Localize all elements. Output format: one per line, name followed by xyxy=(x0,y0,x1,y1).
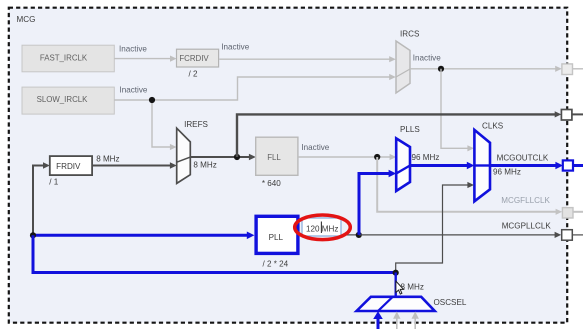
wire source to PLL (blue) xyxy=(33,232,254,240)
annotation red ellipse xyxy=(295,215,351,240)
port square MCGPLLCLK (white/dark) xyxy=(562,230,573,241)
svg-text:MCGFLLCLK: MCGFLLCLK xyxy=(501,196,550,205)
mux CLKS xyxy=(474,122,503,202)
block FRDIV xyxy=(49,156,92,187)
svg-text:MCGPLLCLK: MCGPLLCLK xyxy=(502,222,552,231)
svg-text:8 MHz: 8 MHz xyxy=(96,154,119,163)
svg-text:8 MHz: 8 MHz xyxy=(193,161,216,170)
svg-text:FAST_IRCLK: FAST_IRCLK xyxy=(40,53,88,62)
svg-text:CLKS: CLKS xyxy=(482,122,504,131)
svg-text:FLL: FLL xyxy=(267,153,281,162)
port square MCGFLLCLK (gray) xyxy=(562,208,573,218)
mouse cursor xyxy=(396,281,404,294)
wire MCGFLLCLK (gray to right port) xyxy=(377,157,583,215)
port square MCGIRCLK (gray) xyxy=(562,64,573,75)
port square internal ref (white/dark) xyxy=(561,110,572,121)
wire SLOW_IRCLK branch to IREFS xyxy=(152,100,177,150)
wire IRCS junction down to CLKS top input xyxy=(441,69,474,152)
wire internal reference out (thick dark to right port) xyxy=(237,111,583,157)
svg-text:Inactive: Inactive xyxy=(221,42,249,51)
node junction FLL out xyxy=(374,154,380,160)
wire PLL output xyxy=(300,234,359,236)
wire OSCSEL input 2 (gray from below) xyxy=(393,312,400,329)
svg-text:* 640: * 640 xyxy=(262,179,281,188)
node junction PLL out xyxy=(356,232,362,238)
wire PLL out up to PLLS (blue) xyxy=(359,170,396,235)
edit box 120 MHz xyxy=(302,218,341,236)
wire OSCSEL input selected (blue from below) xyxy=(373,311,383,329)
svg-text:96 MHz: 96 MHz xyxy=(493,167,521,176)
svg-text:8 MHz: 8 MHz xyxy=(401,283,424,292)
wire OSCSEL output up (blue) xyxy=(396,273,424,297)
block FCRDIV xyxy=(177,49,219,78)
svg-text:FRDIV: FRDIV xyxy=(56,162,81,171)
wire input to FRDIV (left vertical) xyxy=(33,162,50,235)
wire MCGPLLCLK (dark thin to right port) xyxy=(359,222,583,239)
svg-text:MCGOUTCLK: MCGOUTCLK xyxy=(497,154,549,163)
svg-text:IREFS: IREFS xyxy=(184,120,208,129)
mux OSCSEL xyxy=(357,297,467,311)
svg-text:MCG: MCG xyxy=(17,15,36,24)
svg-text:PLL: PLL xyxy=(269,233,284,242)
wire OSCSEL input 3 (gray from below) xyxy=(412,312,419,329)
node junction IREFS out xyxy=(234,154,240,160)
svg-text:/ 1: / 1 xyxy=(49,178,58,187)
mux IRCS xyxy=(396,30,420,93)
wire IRCS output to port xyxy=(410,54,583,72)
svg-text:PLLS: PLLS xyxy=(400,125,420,134)
wire FCRDIV to IRCS xyxy=(219,42,396,62)
wire source bottom run (blue) xyxy=(33,235,396,272)
node junction left source xyxy=(30,232,36,238)
wire PLLS output to CLKS (blue) xyxy=(410,153,474,170)
svg-text:FCRDIV: FCRDIV xyxy=(179,54,209,63)
svg-text:96 MHz: 96 MHz xyxy=(412,153,440,162)
mux PLLS xyxy=(396,125,420,191)
node junction SLOW_IRCLK xyxy=(149,97,155,103)
wire source to CLKS bottom input (thin dark) xyxy=(396,182,474,273)
mux IREFS xyxy=(177,120,209,183)
block PLL xyxy=(256,216,298,268)
node junction OSCSEL out xyxy=(393,270,399,276)
svg-text:Inactive: Inactive xyxy=(413,54,441,63)
svg-text:Inactive: Inactive xyxy=(119,45,147,54)
wire IREFS output to FLL xyxy=(190,154,255,170)
svg-text:120 MHz: 120 MHz xyxy=(306,225,338,234)
node junction IRCS out xyxy=(438,66,444,72)
svg-text:Inactive: Inactive xyxy=(301,143,329,152)
svg-text:IRCS: IRCS xyxy=(400,30,420,39)
wire FLL output to PLLS xyxy=(298,143,396,160)
port square MCGOUTCLK (blue) xyxy=(563,160,573,170)
block FAST_IRCLK xyxy=(22,45,114,72)
block FLL xyxy=(256,137,298,188)
svg-text:SLOW_IRCLK: SLOW_IRCLK xyxy=(37,95,89,104)
svg-text:/ 2: / 2 xyxy=(189,69,198,78)
wire FRDIV to IREFS xyxy=(92,154,177,169)
wire MCGOUTCLK (blue to right port) xyxy=(490,154,583,177)
wire SLOW_IRCLK to IRCS xyxy=(114,74,396,100)
svg-text:Inactive: Inactive xyxy=(120,85,148,94)
block SLOW_IRCLK xyxy=(22,87,114,114)
svg-text:/ 2 * 24: / 2 * 24 xyxy=(263,260,289,269)
wire FAST_IRCLK to FCRDIV xyxy=(114,45,176,62)
svg-text:OSCSEL: OSCSEL xyxy=(434,298,467,307)
